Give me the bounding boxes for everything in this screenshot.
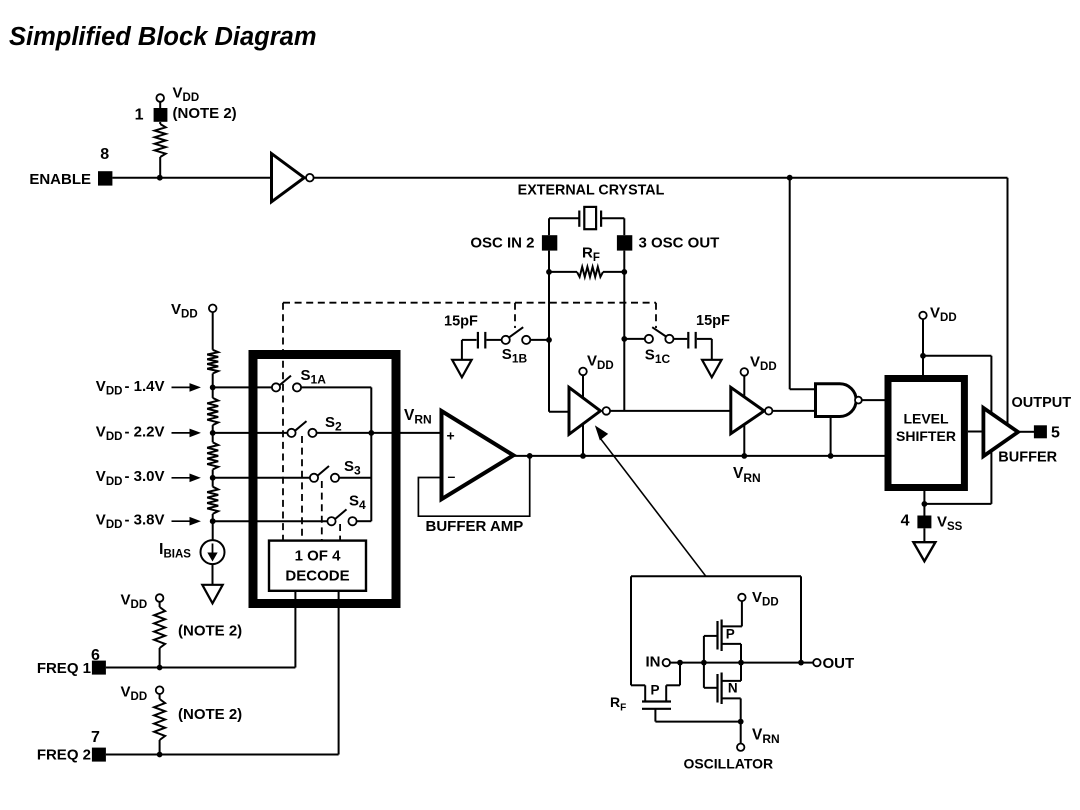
svg-text:BUFFER AMP: BUFFER AMP: [426, 518, 524, 535]
svg-text:15pF: 15pF: [696, 313, 730, 329]
svg-text:- 1.4V: - 1.4V: [125, 378, 165, 395]
svg-text:7: 7: [91, 729, 100, 746]
svg-text:3 OSC OUT: 3 OSC OUT: [639, 234, 720, 251]
svg-text:8: 8: [100, 146, 109, 163]
svg-text:- 3.0V: - 3.0V: [125, 468, 165, 485]
svg-text:4: 4: [901, 512, 910, 529]
svg-text:OSCILLATOR: OSCILLATOR: [683, 756, 773, 772]
svg-text:15pF: 15pF: [444, 314, 478, 330]
svg-text:P: P: [726, 626, 735, 641]
svg-text:OUTPUT: OUTPUT: [1012, 395, 1072, 411]
svg-text:(NOTE 2): (NOTE 2): [178, 623, 242, 640]
svg-text:N: N: [728, 681, 738, 696]
svg-text:- 3.8V: - 3.8V: [125, 512, 165, 529]
svg-text:EXTERNAL CRYSTAL: EXTERNAL CRYSTAL: [518, 182, 665, 198]
svg-text:OUT: OUT: [823, 655, 855, 672]
svg-text:(NOTE 2): (NOTE 2): [173, 105, 237, 122]
svg-text:(NOTE 2): (NOTE 2): [178, 706, 242, 723]
svg-text:+: +: [447, 428, 455, 444]
svg-text:OSC IN 2: OSC IN 2: [470, 234, 534, 251]
svg-text:FREQ 2: FREQ 2: [37, 747, 91, 764]
svg-text:Simplified Block Diagram: Simplified Block Diagram: [9, 23, 317, 51]
svg-text:1: 1: [135, 107, 144, 124]
svg-text:ENABLE: ENABLE: [29, 171, 91, 188]
svg-text:P: P: [651, 683, 660, 698]
svg-text:IN: IN: [646, 654, 661, 671]
svg-text:6: 6: [91, 647, 100, 664]
svg-text:SHIFTER: SHIFTER: [896, 428, 956, 444]
svg-text:- 2.2V: - 2.2V: [125, 423, 165, 440]
svg-text:1 OF 4: 1 OF 4: [295, 548, 342, 565]
svg-text:DECODE: DECODE: [285, 568, 349, 585]
svg-text:LEVEL: LEVEL: [903, 411, 949, 427]
svg-text:FREQ 1: FREQ 1: [37, 660, 91, 677]
svg-text:5: 5: [1051, 425, 1060, 442]
svg-text:–: –: [448, 468, 456, 484]
svg-text:BUFFER: BUFFER: [998, 450, 1057, 466]
